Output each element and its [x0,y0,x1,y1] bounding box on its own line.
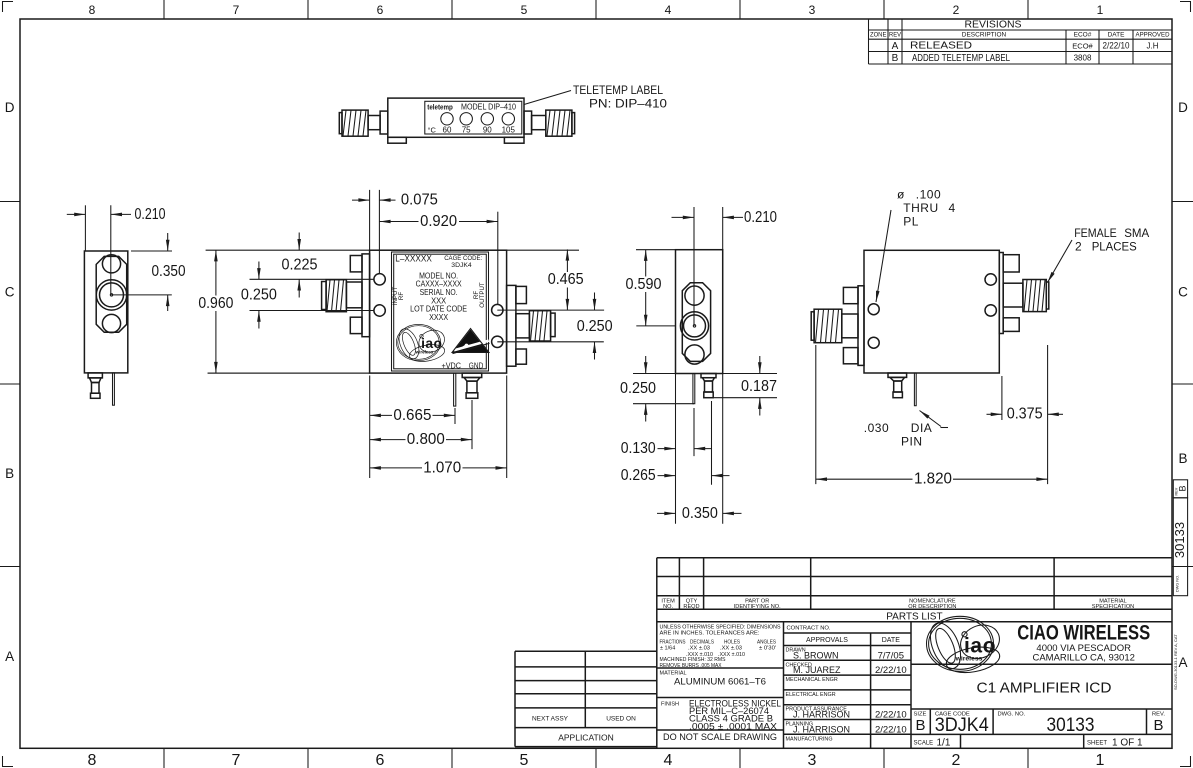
svg-text:RF: RF [398,292,405,300]
svg-text:C1 AMPLIFIER ICD: C1 AMPLIFIER ICD [977,679,1112,696]
rear view bias wire [914,373,916,406]
center view mounting hole top-left [374,274,385,285]
svg-text:J.H: J.H [1147,41,1159,50]
dimension 0.960 [197,250,370,373]
svg-text:2: 2 [1075,240,1082,254]
svg-text:DECIMALS: DECIMALS [690,639,714,645]
svg-text:THRU: THRU [903,201,938,215]
svg-text:B: B [1178,485,1188,491]
svg-text:8: 8 [88,752,97,768]
ESD warning symbol [452,329,490,354]
svg-text:7: 7 [233,3,240,17]
dimension 0.225 [250,233,374,298]
svg-text:4: 4 [665,3,672,17]
svg-text:0.075: 0.075 [401,191,438,208]
scale sheet row [914,734,1144,748]
teletemp DIP-410 label [425,101,522,134]
dwg no strip box right margin [1172,498,1188,596]
svg-text:ø: ø [897,188,905,202]
rear view mounting hole right-bottom [985,305,996,316]
dimension 1.820 [816,345,1048,488]
rear view GND feed-thru pin [888,373,907,398]
leader note hole callout [876,188,956,303]
svg-text:2: 2 [952,752,961,768]
svg-text:2: 2 [953,3,960,17]
dimension 0.350 view2 [657,505,742,522]
svg-text:SHEET: SHEET [1087,741,1107,747]
svg-text:PL: PL [903,215,919,229]
svg-text:D: D [5,100,15,115]
svg-text:0.210: 0.210 [135,206,166,223]
svg-text:IDENTIFYING NO.: IDENTIFYING NO. [734,604,781,610]
dimension 0.210 right view [672,207,778,250]
svg-text:CAMARILLO CA, 93012: CAMARILLO CA, 93012 [1032,652,1134,663]
left side view centerline [111,205,172,295]
svg-text:0.187: 0.187 [741,378,777,395]
svg-text:MECHANICAL ENGR: MECHANICAL ENGR [786,677,838,683]
ciao logo title block [924,616,1004,676]
svg-text:3808: 3808 [1074,54,1092,63]
svg-text:CIAO WIRELESS: CIAO WIRELESS [1017,621,1150,645]
svg-text:APPROVED: APPROVED [1136,32,1170,39]
svg-text:0.665: 0.665 [393,407,431,424]
center view top extension line [206,249,579,251]
svg-text:NO.: NO. [663,604,673,610]
svg-text:DWG. NO.: DWG. NO. [998,712,1026,718]
svg-text:APPLICATION: APPLICATION [558,733,614,743]
svg-text:PIN: PIN [901,435,923,449]
svg-text:.100: .100 [916,188,941,202]
center view GND feed-thru pin [462,373,482,398]
dimension 1.070 [370,459,507,476]
dimension 0.210 left view [67,205,166,251]
center view mounting hole bottom-right [492,336,503,347]
svg-text:0.265: 0.265 [621,467,656,484]
svg-text:L–XXXXX: L–XXXXX [395,253,432,264]
svg-text:ADDED TELETEMP LABEL: ADDED TELETEMP LABEL [912,53,1010,64]
dimension 0.375 [987,345,1064,484]
svg-text:A: A [5,649,14,664]
rev strip box right margin [1173,480,1187,498]
right side view centerline [636,207,694,326]
svg-text:PLACES: PLACES [1092,240,1137,254]
teletemp assembly left SMA connector [339,110,388,136]
svg-text:REVISIONS: REVISIONS [965,19,1022,31]
svg-text:8: 8 [89,3,96,17]
svg-text:4: 4 [949,201,956,215]
center view bottom extension line [208,372,370,374]
svg-text:DO NOT SCALE DRAWING: DO NOT SCALE DRAWING [663,732,777,742]
svg-text:NEXT ASSY: NEXT ASSY [532,716,569,723]
svg-text:DESCRIPTION: DESCRIPTION [962,32,1007,39]
svg-text:0.250: 0.250 [577,318,613,335]
svg-text:SPECIFICATION: SPECIFICATION [1092,604,1134,610]
svg-text:ZONE: ZONE [870,32,887,39]
svg-text:XXXX: XXXX [429,313,448,322]
svg-text:1: 1 [1096,752,1105,768]
revisions table [869,19,1173,64]
dimension 0.465 [547,249,586,310]
svg-text:APPROVALS: APPROVALS [806,637,848,644]
svg-text:INPUT: INPUT [392,286,399,305]
svg-text:0.800: 0.800 [407,431,445,448]
svg-text:0.350: 0.350 [152,263,186,280]
svg-text:OR DESCRIPTION: OR DESCRIPTION [908,604,956,610]
svg-text:0.250: 0.250 [241,287,277,304]
svg-text:7: 7 [232,752,241,768]
dimension 0.130 [621,374,723,524]
svg-text:1/1: 1/1 [937,738,951,749]
svg-text:.XX ±.03: .XX ±.03 [688,646,710,652]
svg-text:6: 6 [376,752,385,768]
leader note female SMA callout [1048,226,1150,283]
svg-text:90: 90 [483,126,492,135]
svg-text:1: 1 [1097,3,1104,17]
svg-text:.XX ±.03: .XX ±.03 [720,646,742,652]
company block [911,621,1172,665]
svg-text:± 0'30': ± 0'30' [759,646,776,652]
svg-text:TELETEMP LABEL: TELETEMP LABEL [573,83,663,97]
svg-text:HOLES: HOLES [724,639,740,645]
dimension 0.920 [379,212,497,305]
dimension 0.665 [370,376,507,479]
teletemp assembly right SMA connector [524,110,575,136]
svg-text:SMA: SMA [1124,226,1149,240]
dimension 0.250 right [497,293,612,360]
rear view mounting hole right-top [985,274,996,285]
svg-text:FEMALE: FEMALE [1074,226,1117,240]
approvals block [784,622,912,749]
svg-text:FRACTIONS: FRACTIONS [660,639,686,645]
parts list table [657,558,1172,749]
svg-text:0.130: 0.130 [621,440,656,457]
svg-text:0.960: 0.960 [198,295,233,312]
svg-text:0.465: 0.465 [548,271,584,288]
svg-text:2/22/10: 2/22/10 [875,724,907,735]
rear view mounting hole left-bottom [868,337,879,348]
dimension 0.250 view2 [620,356,694,422]
svg-text:3DJK4: 3DJK4 [935,715,989,736]
svg-text:B: B [1153,717,1163,734]
right side view bias wire [693,374,695,404]
svg-text:30133: 30133 [1047,715,1095,736]
svg-text:1.070: 1.070 [423,459,461,476]
svg-text:7/7/05: 7/7/05 [878,650,904,661]
center view label plate [392,252,489,371]
svg-text:2/22/10: 2/22/10 [875,665,907,676]
svg-text:MANUFACTURING: MANUFACTURING [786,736,833,742]
svg-text:B: B [892,53,899,64]
dimension 0.800 [370,431,472,448]
dimension 0.350 left view [131,233,186,311]
svg-text:OUTPUT: OUTPUT [479,282,486,308]
svg-text:ECO#: ECO# [1074,32,1092,39]
svg-text:B: B [915,717,925,734]
svg-text:ECO#: ECO# [1072,41,1093,50]
rear view right SMA connector [999,253,1049,334]
svg-text:6: 6 [377,3,384,17]
leader note .030 dia pin [864,411,948,449]
center view right SMA connector [507,285,555,366]
teletemp label leader note [524,83,667,111]
rear view body [864,250,999,373]
svg-text:C: C [1178,285,1188,300]
tolerance block [657,622,784,749]
svg-text:A: A [892,41,899,52]
rear view left SMA connector [811,286,864,366]
svg-text:REV: REV [889,32,902,39]
svg-text:ALUMINUM 6061–T6: ALUMINUM 6061–T6 [674,677,766,687]
svg-text:2/22/10: 2/22/10 [1103,41,1130,52]
svg-text:REQD: REQD [683,604,699,610]
svg-text:75: 75 [462,126,471,135]
svg-text:4: 4 [664,752,673,768]
svg-text:J. HARRISON: J. HARRISON [793,710,850,720]
svg-text:B: B [5,466,14,481]
svg-text:1 OF 1: 1 OF 1 [1112,738,1143,749]
svg-text:3DJK4: 3DJK4 [451,262,472,269]
svg-text:MATERIAL: MATERIAL [660,670,687,676]
svg-text:S. BROWN: S. BROWN [793,650,839,660]
svg-text:USED ON: USED ON [606,716,636,723]
svg-text:2/22/10: 2/22/10 [875,710,907,721]
svg-text:FINISH: FINISH [661,701,679,707]
svg-text:3: 3 [809,3,816,17]
svg-text:B: B [1178,451,1187,466]
svg-text:°C: °C [428,126,437,135]
center view mounting hole top-right [492,304,503,315]
left side view solder pin [88,373,102,398]
svg-text:1.820: 1.820 [914,471,952,488]
dimension 0.265 [621,467,730,484]
svg-text:M. JUAREZ: M. JUAREZ [793,665,841,675]
dimension 0.075 [352,190,438,274]
svg-text:.0005 ± .0001 MAX: .0005 ± .0001 MAX [689,721,777,731]
svg-text:0.350: 0.350 [682,505,718,522]
svg-text:+VDC: +VDC [442,360,462,370]
svg-text:DATE: DATE [882,637,900,644]
svg-text:0.225: 0.225 [282,257,318,274]
dimension 0.590 [624,250,676,326]
center view left SMA connector [322,254,370,337]
svg-text:ANGLES: ANGLES [757,639,776,645]
svg-text:D: D [1178,100,1188,115]
center view mounting hole bottom-left [374,305,385,316]
svg-text:DIA: DIA [911,421,933,435]
svg-text:0.590: 0.590 [626,276,662,293]
svg-text:DWG NO.: DWG NO. [1176,575,1180,592]
svg-text:UNLESS OTHERWISE SPECIFIED:: UNLESS OTHERWISE SPECIFIED: DIMENSIONS [660,624,781,630]
svg-text:60: 60 [443,126,452,135]
ciao logo on label [395,324,448,364]
svg-text:105: 105 [502,126,516,135]
size cage dwg row [911,709,1172,736]
svg-text:0.210: 0.210 [744,209,777,226]
svg-text:teletemp: teletemp [427,103,453,112]
svg-text:ELECTRICAL ENGR: ELECTRICAL ENGR [786,692,836,698]
teletemp assembly body [388,98,524,143]
svg-text:RELEASED: RELEASED [910,41,972,52]
svg-text:MODEL DIP–410: MODEL DIP–410 [461,103,516,112]
svg-text:3: 3 [808,752,817,768]
svg-text:CONTRACT NO.: CONTRACT NO. [787,626,831,632]
svg-text:J. HARRISON: J. HARRISON [793,724,850,734]
svg-text:DATE: DATE [1108,32,1126,39]
svg-text:0.250: 0.250 [620,380,656,397]
application block [515,651,657,746]
svg-text:± 1/64: ± 1/64 [660,646,675,652]
svg-text:5: 5 [521,3,528,17]
svg-text:SCALE: SCALE [914,741,934,747]
svg-text:GND: GND [469,360,484,370]
right side view solder pin [701,374,716,398]
svg-text:.030: .030 [864,421,889,435]
svg-text:C: C [5,285,15,300]
svg-text:0.920: 0.920 [420,213,457,230]
dimension 0.187 [714,356,778,416]
svg-text:A: A [1178,655,1187,670]
svg-text:ARE IN INCHES. TOLERANCES: ARE IN INCHES. TOLERANCES ARE: [660,631,760,637]
svg-text:0.375: 0.375 [1007,406,1043,423]
right side view body [676,250,723,374]
svg-text:REMOVE BURRS .005 MAX: REMOVE BURRS .005 MAX [660,663,722,669]
rear view mounting hole left-top [868,304,879,315]
svg-text:5: 5 [520,752,529,768]
center view +VDC wire [454,373,456,406]
center view body [370,250,507,373]
svg-text:PN: DIP–410: PN: DIP–410 [589,97,667,111]
left side view body [84,251,127,373]
dimension 0.250 left [241,262,374,329]
svg-text:SO-DWG-30133-1 REV A, CAT: SO-DWG-30133-1 REV A, CAT [1173,634,1178,690]
left side view bias wire [113,373,115,405]
svg-text:30133: 30133 [1172,522,1187,558]
svg-text:PARTS LIST: PARTS LIST [886,612,942,623]
